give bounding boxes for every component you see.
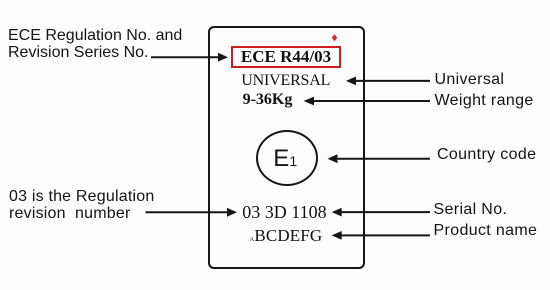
label card outline bbox=[208, 26, 365, 269]
arrow: Weight range bbox=[313, 100, 430, 102]
arrow: revision number -> 03 3D 1108 bbox=[146, 211, 229, 213]
left annotation 1 bbox=[8, 27, 182, 61]
red box ECE R44/03 bbox=[231, 46, 342, 68]
arrow: Product name bbox=[341, 234, 430, 236]
9-36Kg bbox=[243, 92, 293, 108]
arrow: ECE regulation -> red box bbox=[151, 56, 219, 58]
product name bbox=[250, 227, 323, 248]
serial number bbox=[242, 203, 326, 221]
right annotations bbox=[435, 72, 505, 88]
E1 text bbox=[273, 147, 297, 173]
arrow: Universal bbox=[355, 80, 430, 82]
left annotation 2 bbox=[9, 188, 154, 222]
arrow: Country code bbox=[337, 158, 431, 160]
UNIVERSAL bbox=[241, 73, 330, 89]
country-code circle bbox=[256, 130, 319, 187]
arrow: Serial No. bbox=[341, 211, 430, 213]
red dot bbox=[330, 33, 340, 43]
